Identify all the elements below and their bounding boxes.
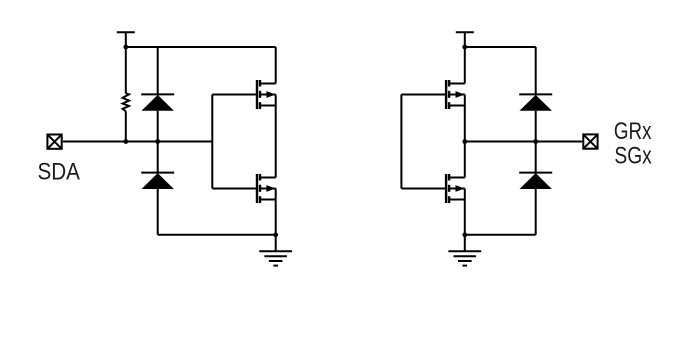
svg-text:SDA: SDA bbox=[38, 158, 81, 185]
svg-text:SGx: SGx bbox=[614, 142, 651, 170]
svg-text:GRx: GRx bbox=[614, 117, 652, 145]
